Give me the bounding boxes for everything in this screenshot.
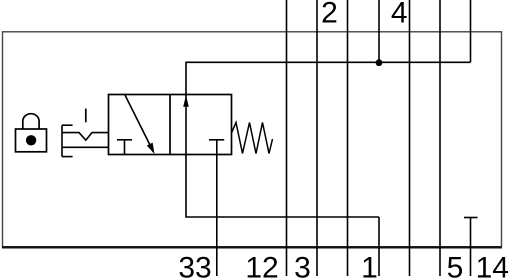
spring return on valve right side — [232, 123, 273, 154]
wire rail F — [439, 0, 441, 276]
valve V1 right position: blocked port (T) — [209, 140, 224, 155]
wire: port line down from right blocked port (33/12 separator) — [216, 155, 218, 277]
wire rail C (right of label 2) — [347, 0, 349, 276]
manual actuator with detent (push handle) — [62, 125, 109, 156]
svg-text:1: 1 — [361, 252, 378, 280]
wire rail A (left vertical channel) — [286, 0, 288, 276]
svg-text:2: 2 — [321, 0, 338, 30]
svg-text:3: 3 — [294, 252, 311, 280]
detent pin above notch — [85, 109, 87, 123]
exhaust port symbol (T) on rail G, port 5/14 — [464, 218, 478, 277]
wire rail G upper (pilot riser to top edge) — [470, 0, 472, 62]
wire rail B (left of label 2) — [316, 0, 318, 276]
wire rail E (right of label 4) — [409, 0, 411, 276]
svg-text:5: 5 — [447, 252, 464, 280]
valve V1 left position: blocked port (T) — [117, 140, 132, 155]
svg-text:33: 33 — [178, 252, 211, 280]
valve V1 right position: through passage with up arrow — [183, 95, 189, 155]
svg-text:4: 4 — [391, 0, 408, 30]
valve V1 body (3/2-way, two positions) — [109, 95, 232, 155]
wire rail D lower (down to label row) — [378, 217, 380, 276]
wire: drain line from valve bottom to rail D lower — [186, 155, 379, 218]
svg-text:12: 12 — [245, 252, 278, 280]
padlock (lockable actuator) — [16, 114, 47, 152]
svg-text:14: 14 — [476, 252, 509, 280]
wire: pilot line from valve top to rail G — [186, 62, 471, 94]
wire rail D upper (port 4 branch, ends at node) — [378, 0, 380, 62]
valve V1 left position: exhaust passage with arrow — [125, 95, 155, 154]
node: junction dot on pilot line — [376, 59, 383, 66]
